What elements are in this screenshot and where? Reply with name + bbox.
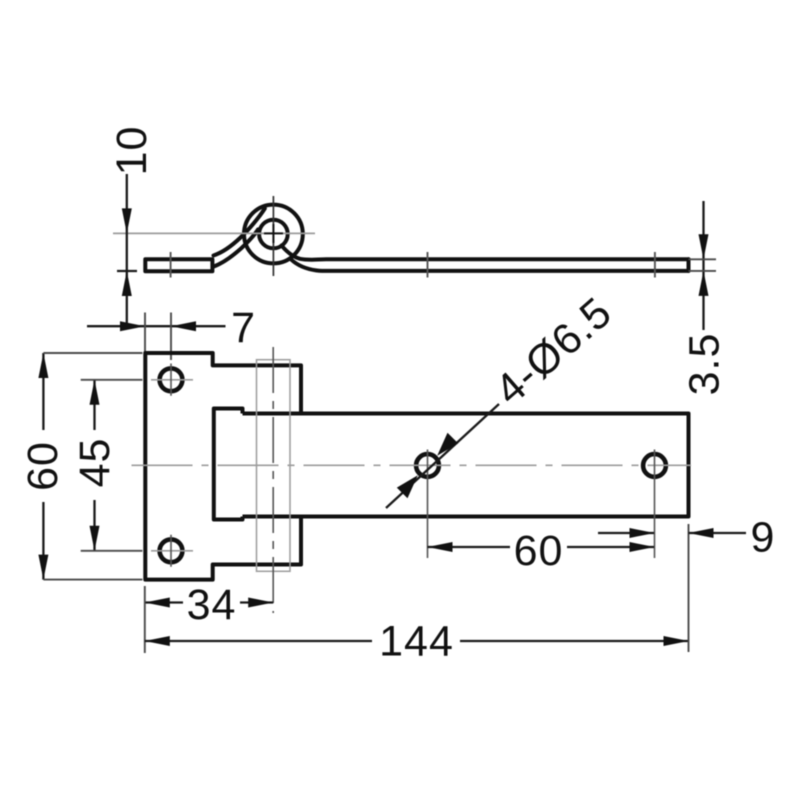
- svg-text:144: 144: [379, 618, 454, 666]
- svg-text:9: 9: [751, 514, 776, 562]
- svg-text:4-Ø6.5: 4-Ø6.5: [486, 288, 621, 414]
- svg-text:34: 34: [187, 581, 237, 629]
- svg-text:10: 10: [108, 126, 156, 176]
- svg-text:7: 7: [231, 304, 256, 352]
- svg-text:45: 45: [71, 438, 119, 488]
- svg-text:60: 60: [514, 527, 564, 575]
- svg-text:3.5: 3.5: [681, 333, 729, 396]
- svg-text:60: 60: [19, 441, 67, 491]
